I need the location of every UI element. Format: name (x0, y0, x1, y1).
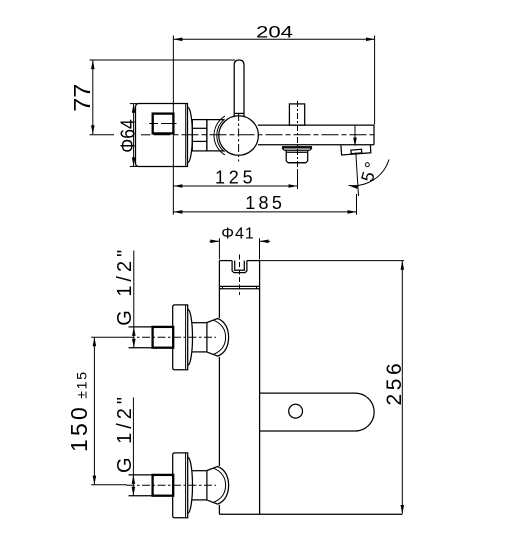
svg-text:150: 150 (66, 404, 92, 452)
lower inlet connection (127, 453, 229, 518)
diverter knob (289, 104, 304, 125)
upper inlet connection (127, 305, 229, 370)
spout (front view) (260, 393, 375, 431)
aerator tilted axis (5 deg) (356, 153, 359, 197)
extension line wall face (left, shared by 204/125/185) (172, 36, 174, 215)
main centerline (valve axis) (141, 134, 374, 136)
dimension 256 (383, 261, 406, 514)
spout body (right band) (258, 125, 374, 145)
dimension D41 (210, 226, 271, 244)
256 extension (top) (260, 260, 404, 262)
svg-text:G 1/2": G 1/2" (114, 246, 136, 326)
hand-shower outlet cup (286, 150, 308, 163)
dimension 77 (69, 60, 95, 134)
wall plate (side view) (136, 104, 193, 167)
lever handle (234, 60, 244, 117)
body bottom edge + 256 extension (bottom) (219, 513, 402, 515)
body (front view) (219, 261, 259, 515)
spout screw hole (289, 404, 303, 418)
handle hub circle (219, 116, 259, 156)
dimension 150 +/-15 (66, 337, 96, 484)
cartridge housing rings (192, 120, 224, 151)
extension lines D64 (130, 103, 138, 105)
dimension 125 (173, 168, 297, 188)
svg-text:77: 77 (69, 84, 95, 112)
G 1/2 leader + pipe dia arrows (lower) (114, 393, 136, 496)
svg-text:185: 185 (245, 193, 285, 213)
extension lines 150 (91, 336, 127, 338)
svg-text:±15: ±15 (73, 370, 89, 399)
extension line 77 bottom / centerline stub (90, 134, 115, 136)
dome base (bold) (206, 322, 208, 352)
set screw plug at top (232, 261, 247, 273)
dimension 185 (173, 193, 356, 214)
extension lines D41 (218, 238, 220, 259)
cylinder (192, 322, 207, 324)
centerline (127, 336, 217, 338)
svg-text:Φ41: Φ41 (221, 226, 255, 243)
handle hub cap arcs (217, 119, 225, 152)
G 1/2 leader + pipe dia arrows (upper) (114, 246, 136, 348)
extension line spout end (right, 204) (374, 36, 376, 125)
wall union nipple (bold) (149, 114, 176, 134)
body top centerline (239, 255, 241, 296)
aerator (5 deg outlet) (341, 145, 371, 155)
svg-text:256: 256 (383, 360, 406, 406)
seam ring (219, 286, 259, 288)
hand-shower outlet flange (282, 147, 312, 151)
dimension D64 (117, 104, 139, 167)
svg-text:125: 125 (215, 168, 256, 188)
dimension 204 (173, 23, 375, 41)
extension line 185 right (below aerator) (356, 194, 358, 215)
svg-text:G 1/2": G 1/2" (114, 393, 136, 473)
extension line 77 top (to lever) (90, 59, 236, 61)
flange (173, 305, 188, 370)
pipe (129, 326, 153, 328)
hub vertical centerline (238, 113, 240, 162)
aerator leader arrow (353, 126, 357, 147)
angle arc 5 deg (349, 160, 389, 189)
threaded nipple (bold) (153, 327, 174, 348)
diverter / outlet centerline (297, 101, 299, 168)
svg-text:204: 204 (256, 23, 293, 41)
dome (207, 319, 229, 357)
